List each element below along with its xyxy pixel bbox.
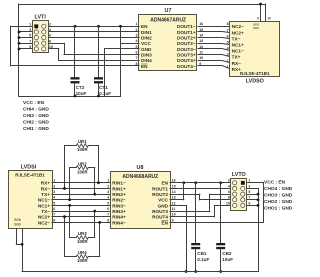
svg-text:6: 6 (228, 190, 230, 194)
svg-text:UR4: UR4 (78, 250, 87, 255)
svg-text:DOUT3−: DOUT3− (177, 47, 196, 52)
svg-text:CHO2 : GND: CHO2 : GND (264, 199, 293, 205)
svg-text:ADN4668ARUZ: ADN4668ARUZ (122, 174, 158, 180)
svg-text:GND: GND (141, 47, 152, 52)
svg-text:8: 8 (107, 218, 109, 222)
svg-text:UR1: UR1 (78, 139, 87, 144)
svg-text:1: 1 (53, 179, 55, 183)
svg-text:4: 4 (227, 47, 229, 51)
svg-text:7: 7 (248, 196, 250, 200)
svg-text:EN: EN (161, 220, 168, 225)
svg-text:3: 3 (53, 190, 55, 194)
svg-text:10uF: 10uF (222, 257, 233, 262)
svg-text:5: 5 (107, 201, 109, 205)
svg-text:RIN4+: RIN4+ (112, 215, 126, 220)
svg-text:8: 8 (228, 196, 230, 200)
svg-text:100R: 100R (77, 239, 88, 244)
svg-text:DIN1: DIN1 (141, 30, 152, 35)
svg-text:6: 6 (227, 34, 229, 38)
svg-text:LVTI: LVTI (35, 15, 47, 21)
svg-text:LVDSI: LVDSI (21, 165, 37, 171)
svg-text:DIN4: DIN4 (141, 58, 152, 63)
svg-text:7: 7 (227, 28, 229, 32)
svg-text:RX+: RX+ (41, 181, 51, 186)
svg-text:9: 9 (257, 17, 259, 21)
svg-text:1: 1 (29, 22, 31, 26)
svg-text:DIN2: DIN2 (141, 36, 152, 41)
svg-text:NC2−: NC2− (38, 220, 50, 225)
svg-text:4: 4 (228, 184, 230, 188)
svg-text:CHO3 : GND: CHO3 : GND (264, 192, 293, 198)
svg-text:0.1uF: 0.1uF (197, 257, 209, 262)
svg-text:TX+: TX+ (232, 55, 241, 60)
svg-text:8: 8 (136, 62, 138, 66)
svg-text:11: 11 (199, 50, 203, 54)
svg-text:3: 3 (29, 28, 31, 32)
svg-text:DOUT2+: DOUT2+ (177, 36, 196, 41)
svg-text:1: 1 (248, 179, 250, 183)
svg-text:RIN3+: RIN3+ (112, 209, 126, 214)
svg-text:2: 2 (136, 28, 138, 32)
svg-text:100R: 100R (77, 169, 88, 174)
svg-text:14: 14 (199, 34, 203, 38)
svg-text:ADN4667ARUZ: ADN4667ARUZ (150, 17, 186, 23)
svg-text:UR2: UR2 (78, 161, 87, 166)
svg-text:4: 4 (53, 196, 55, 200)
svg-text:TX+: TX+ (41, 192, 50, 197)
svg-text:DIN3: DIN3 (141, 52, 152, 57)
svg-text:9: 9 (29, 45, 31, 49)
svg-text:0.1uF: 0.1uF (99, 91, 111, 96)
svg-text:DOUT3+: DOUT3+ (177, 52, 196, 57)
svg-text:3: 3 (107, 190, 109, 194)
svg-text:GND: GND (158, 203, 169, 208)
svg-text:CHO4 : GND: CHO4 : GND (264, 186, 293, 192)
svg-text:6: 6 (53, 207, 55, 211)
svg-text:EN: EN (141, 24, 148, 29)
svg-text:10: 10 (267, 17, 271, 21)
svg-text:ROUT2: ROUT2 (152, 192, 168, 197)
svg-text:RJLSE-4T1B1: RJLSE-4T1B1 (15, 172, 45, 177)
svg-text:9: 9 (172, 218, 174, 222)
svg-text:5: 5 (248, 190, 250, 194)
svg-text:1: 1 (227, 65, 229, 69)
svg-text:VCC: VCC (141, 41, 152, 46)
svg-text:9: 9 (248, 201, 250, 205)
svg-text:CHI1 : GND: CHI1 : GND (23, 126, 49, 132)
svg-text:CB2: CB2 (222, 251, 232, 256)
svg-text:8: 8 (227, 22, 229, 26)
svg-text:1: 1 (107, 179, 109, 183)
svg-text:4: 4 (49, 28, 51, 32)
svg-text:CHO1 : GND: CHO1 : GND (264, 205, 293, 211)
svg-text:VCC : EN: VCC : EN (23, 100, 45, 106)
svg-text:2: 2 (107, 184, 109, 188)
svg-text:NC1+: NC1+ (38, 203, 50, 208)
svg-text:SG9: SG9 (14, 223, 21, 227)
svg-text:RX−: RX− (41, 186, 51, 191)
svg-text:ROUT1: ROUT1 (152, 186, 168, 191)
svg-text:5: 5 (227, 41, 229, 45)
svg-text:RX−: RX− (232, 61, 242, 66)
svg-text:2: 2 (227, 59, 229, 63)
svg-text:U7: U7 (165, 8, 172, 14)
svg-text:7: 7 (107, 213, 109, 217)
svg-text:LVDSO: LVDSO (246, 79, 264, 85)
svg-text:SG9: SG9 (253, 26, 259, 30)
svg-text:CB1: CB1 (197, 251, 207, 256)
svg-text:EN: EN (141, 64, 148, 69)
svg-text:8: 8 (53, 218, 55, 222)
svg-text:NC2−: NC2− (232, 24, 244, 29)
svg-text:10uF: 10uF (76, 91, 87, 96)
svg-text:1: 1 (136, 22, 138, 26)
svg-text:NC1+: NC1+ (232, 43, 244, 48)
svg-text:2: 2 (228, 179, 230, 183)
svg-text:VCC : EN: VCC : EN (264, 179, 286, 185)
svg-text:5: 5 (136, 45, 138, 49)
svg-text:11: 11 (172, 207, 176, 211)
svg-text:TX−: TX− (41, 209, 50, 214)
svg-text:ROUT3: ROUT3 (152, 209, 168, 214)
svg-text:TX−: TX− (232, 36, 241, 41)
svg-text:RIN1−: RIN1− (112, 181, 126, 186)
svg-text:RIN2+: RIN2+ (112, 192, 126, 197)
svg-text:CHI3 : GND: CHI3 : GND (23, 113, 49, 119)
svg-text:7: 7 (29, 39, 31, 43)
svg-text:CT1: CT1 (99, 85, 108, 90)
svg-text:16: 16 (199, 22, 203, 26)
svg-text:6: 6 (49, 34, 51, 38)
svg-text:10: 10 (199, 56, 203, 60)
svg-text:NC2+: NC2+ (38, 215, 50, 220)
svg-text:100R: 100R (77, 258, 88, 263)
svg-text:3: 3 (136, 34, 138, 38)
svg-text:VCC: VCC (158, 198, 169, 203)
svg-text:RIN4−: RIN4− (112, 220, 126, 225)
svg-text:SG8: SG8 (14, 218, 21, 222)
svg-text:2: 2 (49, 22, 51, 26)
svg-text:5: 5 (53, 201, 55, 205)
svg-text:RIN2−: RIN2− (112, 198, 126, 203)
svg-text:DOUT2−: DOUT2− (177, 41, 196, 46)
svg-text:14: 14 (172, 190, 176, 194)
svg-text:6: 6 (136, 50, 138, 54)
svg-text:2: 2 (53, 184, 55, 188)
svg-text:RIN1+: RIN1+ (112, 186, 126, 191)
svg-text:10: 10 (226, 201, 230, 205)
svg-text:6: 6 (107, 207, 109, 211)
svg-text:8: 8 (49, 39, 51, 43)
svg-text:15: 15 (172, 184, 176, 188)
svg-text:U8: U8 (137, 165, 144, 171)
svg-text:ROUT4: ROUT4 (152, 215, 168, 220)
svg-text:CHI2 : GND: CHI2 : GND (23, 119, 49, 125)
svg-text:100R: 100R (77, 147, 88, 152)
svg-text:DOUT1+: DOUT1+ (177, 30, 196, 35)
svg-text:NC1−: NC1− (232, 49, 244, 54)
svg-text:UR3: UR3 (78, 231, 87, 236)
svg-text:4: 4 (136, 39, 138, 43)
svg-text:NC1−: NC1− (38, 198, 50, 203)
svg-text:CHI4 : GND: CHI4 : GND (23, 107, 49, 113)
svg-text:CT2: CT2 (76, 85, 85, 90)
svg-text:13: 13 (199, 39, 203, 43)
svg-text:4: 4 (107, 196, 109, 200)
svg-text:RJLSE-4T1B1: RJLSE-4T1B1 (240, 71, 270, 76)
svg-text:10: 10 (49, 45, 53, 49)
svg-text:5: 5 (29, 34, 31, 38)
svg-text:LVTO: LVTO (232, 172, 246, 178)
svg-text:3: 3 (248, 184, 250, 188)
svg-text:DOUT1−: DOUT1− (177, 24, 196, 29)
svg-text:DOUT4+: DOUT4+ (177, 58, 196, 63)
svg-text:RIN3−: RIN3− (112, 203, 126, 208)
svg-text:NC2+: NC2+ (232, 30, 244, 35)
svg-text:3: 3 (227, 53, 229, 57)
svg-text:12: 12 (172, 201, 176, 205)
svg-text:EN: EN (161, 181, 168, 186)
svg-text:7: 7 (53, 213, 55, 217)
svg-text:DOUT4−: DOUT4− (177, 64, 196, 69)
svg-text:7: 7 (136, 56, 138, 60)
